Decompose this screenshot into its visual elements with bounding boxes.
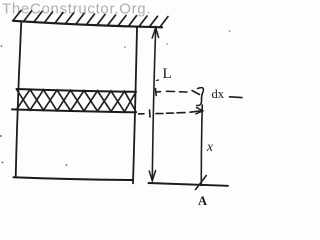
ceiling line [13,21,162,28]
bar left edge [16,22,22,178]
paper background [0,0,248,209]
svg-text:A: A [198,194,207,208]
dimension line L [152,28,155,180]
arrowhead up (top of L line) [152,28,158,39]
arrowhead down (bottom of L line) [149,171,155,181]
element strip cross hatch [17,89,137,112]
section tick slash [196,176,207,190]
svg-text:dx: dx [212,87,225,101]
ceiling hatching [13,11,168,28]
lower dashed line (element bottom level) with arrow [139,110,202,117]
svg-text:x: x [206,139,213,154]
arrowhead right (lower dashed line) [196,108,203,114]
brace squiggle for dx [197,88,204,106]
baseline at section A [149,183,229,186]
svg-text:TheConstructor.Org.: TheConstructor.Org. [2,1,151,18]
upper dashed line (element top level) [156,89,200,96]
paper specks [0,30,230,166]
x reference line [201,105,202,186]
dash after dx [230,96,243,99]
bar right edge [133,27,137,183]
element strip bottom line [12,109,136,112]
element strip top line [17,89,137,92]
tick below L [157,79,159,82]
svg-text:L: L [163,66,172,82]
bar bottom edge [14,177,134,180]
